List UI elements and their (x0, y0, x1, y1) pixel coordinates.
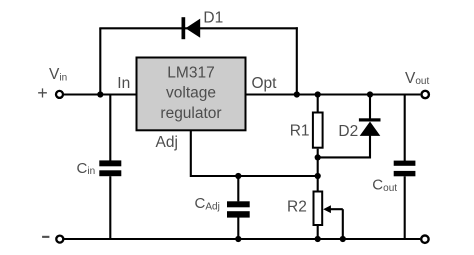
node input junction (97, 91, 103, 97)
wiper arrow of R2 (323, 205, 343, 239)
wire Adj pin (191, 131, 318, 176)
node CAdj bottom (235, 236, 241, 242)
op box U1 LM317 (137, 58, 246, 131)
wire CAdj drop lower (237, 218, 239, 240)
label minus (42, 236, 49, 238)
wire R1 top lead (317, 95, 319, 113)
wire Cout drop upper (404, 95, 406, 162)
terminal out bottom (421, 236, 428, 243)
svg-text:voltage: voltage (166, 85, 216, 102)
wire CAdj drop upper (237, 176, 239, 201)
wire Cin drop lower (109, 176, 111, 239)
node D2 top (367, 91, 373, 97)
node R2 bottom (315, 236, 321, 242)
terminal minus (56, 236, 63, 243)
diode D1 (182, 17, 201, 39)
node R1 top (315, 91, 321, 97)
node CAdj top (235, 173, 241, 179)
node loop junction (294, 91, 300, 97)
svg-text:Vin: Vin (49, 66, 67, 83)
resistor R1 (313, 113, 323, 148)
wire bottom rail (64, 238, 420, 240)
wire output rail (247, 93, 421, 95)
wire up to diode loop (99, 28, 101, 95)
svg-text:D1: D1 (203, 10, 223, 27)
svg-text:LM317: LM317 (167, 64, 214, 81)
svg-text:CAdj: CAdj (195, 195, 220, 212)
capacitor Cout (394, 161, 416, 177)
wire R2 bottom lead (317, 226, 319, 239)
wire top (99, 27, 297, 29)
wire input (64, 93, 136, 95)
svg-text:Cout: Cout (372, 177, 397, 194)
wire R1-R2 link (317, 149, 319, 191)
terminal Vin+ (56, 91, 63, 98)
capacitor Cin (99, 160, 121, 176)
resistor R2 (314, 192, 323, 226)
node Adj junction (315, 173, 321, 179)
svg-text:R2: R2 (287, 199, 307, 216)
svg-text:+: + (37, 83, 48, 103)
wire Cout drop lower (404, 176, 406, 239)
svg-text:regulator: regulator (160, 105, 221, 122)
capacitor CAdj (227, 201, 250, 217)
svg-text:R1: R1 (290, 123, 310, 140)
diode D2 (359, 118, 381, 136)
wire D2 return (317, 135, 370, 157)
svg-text:In: In (117, 75, 130, 92)
svg-text:Opt: Opt (252, 75, 278, 92)
svg-text:Cin: Cin (77, 160, 96, 177)
wire Cin drop upper (109, 95, 111, 161)
svg-text:Vout: Vout (405, 70, 429, 87)
wire D2 top lead (369, 95, 371, 120)
svg-text:Adj: Adj (156, 134, 178, 151)
svg-text:D2: D2 (338, 123, 358, 140)
terminal Vout (422, 91, 429, 98)
node wiper bottom (340, 236, 346, 242)
wire down from loop (296, 27, 298, 94)
node D2 return (315, 154, 321, 160)
